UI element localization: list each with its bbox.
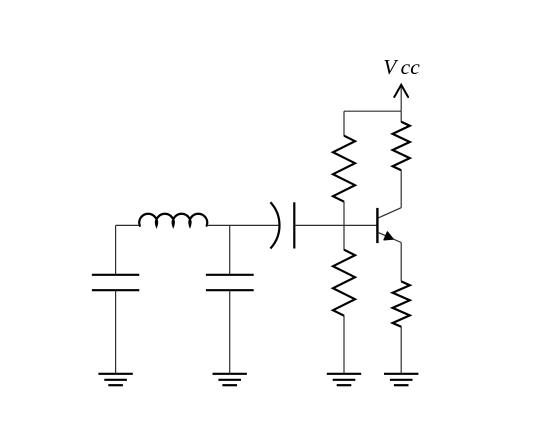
- wire bias branch top: [343, 111, 345, 136]
- wire C1 to ground: [115, 290, 117, 373]
- ground G4: [384, 374, 418, 385]
- collector lead: [378, 208, 401, 218]
- capacitor C3 curved plate: [270, 202, 279, 248]
- inductor L1: [139, 214, 207, 226]
- emitter arrow: [384, 232, 393, 240]
- wire Vcc rail: [344, 110, 401, 112]
- wire left node to inductor: [116, 224, 141, 226]
- wire node A down: [115, 225, 117, 274]
- wire emitter to RE: [400, 243, 402, 282]
- wire inductor to coupling cap: [207, 224, 279, 226]
- resistor RC: [393, 122, 410, 171]
- wire R2 to ground: [343, 316, 345, 374]
- wire node B down: [229, 225, 231, 274]
- capacitor C1: [92, 275, 139, 290]
- capacitor C2: [206, 275, 254, 290]
- wire Vcc to RC: [400, 111, 402, 122]
- resistor RE: [393, 281, 410, 326]
- resistor R1: [333, 136, 355, 202]
- wire C2 to ground: [229, 290, 231, 373]
- resistor R2: [333, 250, 355, 316]
- Vcc arrow: [394, 85, 408, 97]
- ground G2: [213, 374, 247, 385]
- wire R1 to R2: [343, 202, 345, 251]
- wire RE to ground: [400, 327, 402, 374]
- svg-text:V cc: V cc: [383, 55, 420, 79]
- ground G1: [98, 374, 132, 385]
- Vcc stem: [400, 86, 402, 111]
- wire C3 to base: [294, 224, 377, 226]
- transistor Q1 base bar: [376, 208, 378, 243]
- wire RC to collector: [400, 170, 402, 208]
- ground G3: [327, 374, 361, 385]
- emitter lead: [378, 232, 401, 242]
- capacitor C3 straight plate: [293, 202, 295, 248]
